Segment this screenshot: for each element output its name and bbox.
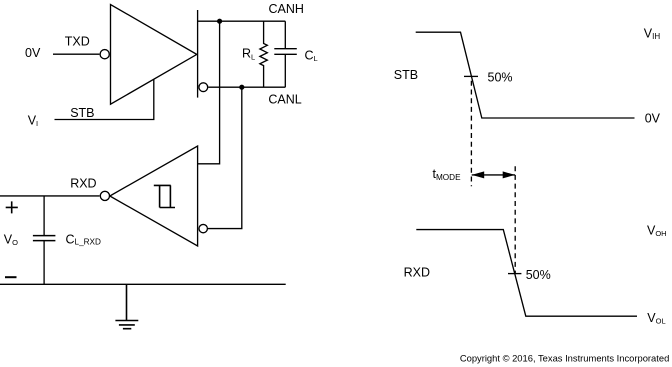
CANL output bubble xyxy=(199,83,208,92)
wire RXD xyxy=(0,195,100,197)
arrow tMODE xyxy=(472,174,515,176)
svg-text:STB: STB xyxy=(394,68,418,82)
receiver U2 xyxy=(110,146,198,246)
wire CANL xyxy=(208,86,285,88)
wire VO node lower segment xyxy=(43,241,45,285)
wire VO node upper segment xyxy=(43,196,45,236)
wire ground rail xyxy=(0,283,286,285)
junction CANH xyxy=(217,19,222,24)
svg-text:0V: 0V xyxy=(25,46,41,60)
plus sign xyxy=(6,201,18,213)
minus sign xyxy=(5,276,17,278)
tick 50% STB xyxy=(464,75,478,77)
svg-text:0V: 0V xyxy=(645,112,661,126)
wire STB xyxy=(55,79,154,119)
svg-text:TXD: TXD xyxy=(65,34,90,48)
svg-text:CANH: CANH xyxy=(269,2,304,16)
wire CANL to receiver inverting input xyxy=(208,87,242,228)
waveform RXD xyxy=(416,230,637,317)
resistor RL xyxy=(260,21,267,87)
dashed line from STB 50% xyxy=(470,81,472,186)
pulse symbol inside receiver xyxy=(154,185,175,207)
svg-text:Copyright © 2016, Texas Instru: Copyright © 2016, Texas Instruments Inco… xyxy=(460,353,669,364)
tick 50% RXD xyxy=(508,273,521,275)
wire CANH xyxy=(198,20,286,22)
svg-text:50%: 50% xyxy=(488,70,513,84)
svg-text:RXD: RXD xyxy=(404,265,430,279)
wire CANH to receiver input xyxy=(198,21,220,164)
waveform STB xyxy=(416,32,635,118)
wire TXD input xyxy=(53,53,99,55)
dashed line to RXD 50% xyxy=(514,166,516,274)
capacitor CL xyxy=(274,21,297,87)
TXD input bubble xyxy=(100,50,109,59)
driver buffer U1 xyxy=(111,5,197,105)
svg-text:50%: 50% xyxy=(526,268,551,282)
svg-text:RXD: RXD xyxy=(70,176,96,190)
junction CANL xyxy=(239,85,244,90)
receiver inverting input bubble xyxy=(199,224,207,232)
svg-text:STB: STB xyxy=(70,106,94,120)
bus bar xyxy=(197,10,199,98)
capacitor CL_RXD xyxy=(33,236,56,241)
ground xyxy=(115,284,138,328)
RXD output bubble xyxy=(100,191,109,200)
svg-text:CANL: CANL xyxy=(268,92,301,106)
